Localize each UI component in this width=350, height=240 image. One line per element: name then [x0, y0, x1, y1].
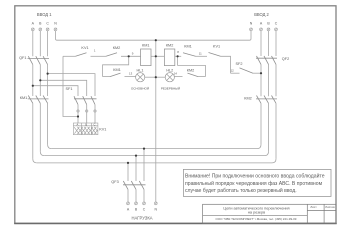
- svg-text:КМ2: КМ2: [244, 96, 252, 100]
- svg-text:KV1: KV1: [99, 128, 106, 132]
- svg-text:HL1: HL1: [137, 69, 144, 73]
- svg-text:КМ2: КМ2: [187, 68, 195, 72]
- svg-text:РЕЗЕРВНЫЙ: РЕЗЕРВНЫЙ: [161, 87, 180, 91]
- svg-text:КМ1: КМ1: [113, 68, 121, 72]
- svg-text:QF2: QF2: [282, 57, 289, 61]
- svg-text:A: A: [77, 123, 79, 127]
- svg-text:КМ2: КМ2: [113, 46, 121, 50]
- svg-text:HL2: HL2: [166, 69, 173, 73]
- svg-text:КМ1: КМ1: [142, 44, 150, 48]
- svg-text:11: 11: [199, 51, 202, 55]
- svg-text:13: 13: [129, 72, 133, 76]
- svg-text:случае будет работать только р: случае будет работать только резервный в…: [185, 187, 297, 194]
- svg-text:ВВОД 2: ВВОД 2: [254, 12, 269, 17]
- svg-text:KV1: KV1: [81, 46, 88, 50]
- svg-text:QF3: QF3: [111, 180, 118, 184]
- svg-text:14: 14: [174, 72, 178, 76]
- svg-text:КМ1: КМ1: [20, 96, 28, 100]
- svg-text:Листов: Листов: [325, 205, 335, 209]
- svg-text:ВВОД 1: ВВОД 1: [37, 12, 52, 17]
- svg-text:ОСНОВНОЙ: ОСНОВНОЙ: [131, 87, 149, 91]
- svg-text:ООО "ЯВК ТЕХКОМПЛЕКТ" г.Москва: ООО "ЯВК ТЕХКОМПЛЕКТ" г.Москва, тел. (49…: [216, 217, 297, 221]
- svg-text:12: 12: [231, 69, 235, 73]
- svg-text:КМ2: КМ2: [166, 44, 174, 48]
- svg-text:на резерв: на резерв: [248, 211, 265, 215]
- svg-text:SF2: SF2: [236, 62, 243, 66]
- svg-text:Внимание! При подключении осно: Внимание! При подключении основного ввод…: [185, 173, 325, 180]
- svg-text:KV1: KV1: [213, 45, 220, 49]
- svg-text:правильный порядок чередования: правильный порядок чередования фаз АВС. …: [185, 180, 323, 187]
- svg-text:НАГРУЗКА: НАГРУЗКА: [131, 216, 152, 221]
- svg-text:B: B: [85, 123, 87, 127]
- svg-text:SF1: SF1: [66, 87, 73, 91]
- svg-text:QF1: QF1: [19, 56, 26, 60]
- svg-text:C: C: [94, 123, 96, 127]
- svg-text:Лист: Лист: [310, 205, 317, 209]
- svg-text:КМ1: КМ1: [184, 45, 192, 49]
